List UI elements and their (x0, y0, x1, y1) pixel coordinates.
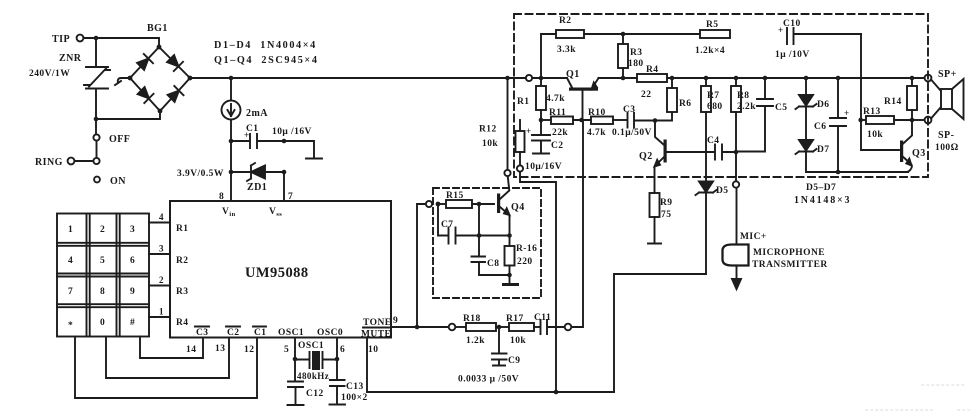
svg-text:0.0033 μ /50V: 0.0033 μ /50V (458, 375, 519, 385)
svg-text:R-16: R-16 (516, 244, 537, 254)
svg-text:R3: R3 (176, 287, 189, 297)
svg-text:R4: R4 (176, 318, 189, 328)
wire main top rail left (bridge to Q1) (190, 77, 567, 79)
svg-text:R5: R5 (706, 20, 719, 30)
svg-text:C1: C1 (254, 328, 267, 338)
resistor R14 (884, 78, 917, 120)
IC U1 UM95088 (170, 201, 391, 338)
wire keypad col 2 to pin 13 (106, 337, 229, 379)
svg-text:C12: C12 (306, 389, 324, 399)
node ZD1 left (229, 170, 234, 175)
svg-text:1: 1 (159, 307, 164, 317)
svg-text:3.9V/0.5W: 3.9V/0.5W (177, 169, 224, 179)
resistor R2 3.3k (541, 16, 700, 78)
svg-text:OFF: OFF (109, 134, 130, 145)
terminal tone line connector (449, 324, 456, 331)
svg-text:240V/1W: 240V/1W (29, 69, 70, 79)
svg-text:2.2k: 2.2k (737, 102, 756, 112)
svg-text:C7: C7 (441, 220, 454, 230)
svg-text:10μ /16V: 10μ /16V (272, 127, 312, 137)
svg-text:BG1: BG1 (147, 23, 168, 34)
svg-text:5: 5 (100, 256, 105, 266)
svg-text:22k: 22k (552, 128, 568, 138)
svg-text:C2: C2 (551, 141, 564, 151)
node rail R7 (704, 76, 709, 81)
wire pin 7 (284, 172, 293, 202)
varistor ZNR 240V/1W (29, 38, 110, 119)
terminal connector (R12 bottom) (517, 165, 523, 171)
node lower-left junction (94, 117, 99, 122)
resistor R18 1.2k (456, 314, 510, 346)
transistor Q3 (900, 120, 926, 172)
svg-text:1μ /10V: 1μ /10V (775, 50, 810, 60)
wire keypad col 1 to pin 12 (75, 337, 257, 399)
svg-text:9: 9 (130, 287, 135, 297)
svg-text:+: + (244, 130, 250, 140)
node rail R1/R2 (539, 76, 544, 81)
node C1 left (229, 139, 234, 144)
node pin9 riser junction (415, 325, 420, 330)
svg-text:TIP: TIP (52, 34, 70, 45)
svg-text:UM95088: UM95088 (245, 265, 309, 281)
resistor R10 4.7k (587, 108, 627, 138)
svg-text:D7: D7 (817, 145, 830, 155)
svg-text:1.2k: 1.2k (466, 336, 485, 346)
node rail C6 (836, 76, 841, 81)
svg-text:7: 7 (68, 287, 73, 297)
resistor R5 1.2k x4 (695, 20, 730, 56)
svg-text:1: 1 (68, 225, 73, 235)
terminal oscillator box input (426, 201, 432, 207)
keypad (57, 214, 149, 337)
svg-text:1.2k×4: 1.2k×4 (695, 46, 725, 56)
svg-text:3: 3 (130, 225, 135, 235)
node rail R8 (734, 76, 739, 81)
svg-text:2: 2 (100, 225, 105, 235)
resistor R3 180 (618, 34, 644, 78)
svg-text:10μ/16V: 10μ/16V (525, 162, 562, 172)
node R14 bottom / SP- (910, 118, 915, 123)
svg-text:R7: R7 (707, 91, 720, 101)
node C1 right / pin7 column (282, 139, 287, 144)
wire bridge bottom to lower rail (96, 111, 160, 119)
capacitor C8 (472, 257, 511, 276)
terminal rail connector (526, 75, 532, 81)
amplifier section dashed box (514, 14, 928, 177)
svg-text:MICROPHONE: MICROPHONE (753, 248, 825, 258)
svg-text:3: 3 (159, 244, 164, 254)
svg-text:2mA: 2mA (246, 108, 268, 119)
svg-text:+: + (526, 126, 532, 136)
svg-text:R2: R2 (559, 16, 572, 26)
terminal RING (35, 157, 93, 168)
diode D6 (796, 78, 830, 110)
transistor Q2 (639, 121, 714, 194)
svg-text:Q2: Q2 (639, 151, 653, 162)
node rail C5 (763, 76, 768, 81)
svg-text:*: * (68, 321, 73, 331)
wire keypad col 3 to pin 14 (140, 337, 203, 359)
svg-text:10k: 10k (510, 336, 526, 346)
wire riser to oscillator box input (417, 204, 426, 327)
svg-text:R9: R9 (660, 198, 673, 208)
svg-text:R2: R2 (176, 256, 189, 266)
svg-text:9: 9 (393, 316, 398, 326)
capacitor C11 (534, 313, 565, 334)
svg-text:Q1–Q4 2SC945×4: Q1–Q4 2SC945×4 (214, 55, 319, 66)
ground (oscillator) (504, 283, 518, 286)
capacitor C13 100x2 (330, 359, 368, 405)
node C3/R6/Q2 collector (653, 118, 658, 123)
svg-text:12: 12 (244, 345, 254, 355)
svg-text:100×2: 100×2 (341, 393, 368, 403)
capacitor C2 10u/16V (525, 120, 564, 172)
node C4/R8/mic (734, 150, 739, 155)
svg-text:10k: 10k (867, 130, 883, 140)
capacitor C9 0.0033u/50V (458, 327, 521, 385)
terminal SP+ (925, 69, 957, 81)
svg-text:680: 680 (707, 102, 723, 112)
svg-text:R12: R12 (479, 125, 497, 135)
svg-text:R15: R15 (446, 191, 464, 201)
wire return line from connector pair down to bottom rail (520, 172, 556, 392)
svg-text:75: 75 (661, 210, 671, 220)
diode D7 (796, 107, 909, 173)
node rail R14 (910, 76, 915, 81)
wire pin 10 MUTE to bottom rail (367, 338, 614, 393)
node rail D6 (804, 76, 809, 81)
svg-text:D1–D4 1N4004×4: D1–D4 1N4004×4 (214, 40, 317, 51)
svg-text:R14: R14 (884, 97, 902, 107)
svg-text:R10: R10 (588, 108, 606, 118)
svg-text:C2: C2 (227, 328, 240, 338)
svg-text:R8: R8 (737, 91, 750, 101)
wire main top rail right (Q1 to SP+) (599, 77, 925, 79)
svg-text:Q1: Q1 (566, 69, 580, 80)
svg-text:R18: R18 (463, 314, 481, 324)
svg-text:4: 4 (159, 212, 164, 222)
svg-text:TRANSMITTER: TRANSMITTER (752, 260, 828, 270)
resistor R9 75 (648, 193, 673, 244)
svg-text:C9: C9 (508, 356, 521, 366)
switch contact ON (94, 176, 126, 187)
capacitor C6 (814, 78, 850, 172)
capacitor C5 (736, 78, 788, 152)
wire pin 8 (219, 172, 231, 202)
diode D2 (bridge top-right arm) (167, 55, 183, 71)
svg-text:C5: C5 (775, 103, 788, 113)
wire keypad row 2 to pin 3 (149, 244, 170, 255)
resistor R6 (655, 78, 692, 121)
svg-text:Q4: Q4 (511, 202, 525, 213)
resistor R15 (438, 191, 494, 208)
wire R14 node to SP- terminal (912, 119, 925, 121)
resistor R7 680 (701, 78, 723, 181)
svg-text:ZNR: ZNR (59, 53, 82, 64)
node bottom rail / return junction (554, 390, 559, 395)
terminal C11 output connector (565, 324, 572, 331)
svg-text:OSC1: OSC1 (298, 341, 324, 351)
capacitor C12 (288, 359, 324, 405)
wire keypad row 4 to pin 1 (149, 307, 170, 318)
diode D3 (bridge bottom-left arm) (138, 87, 154, 103)
node rail R6 (670, 76, 675, 81)
svg-text:R6: R6 (679, 99, 692, 109)
wire pin 9 TONE output (391, 316, 449, 327)
resistor R8 2.2k (731, 78, 756, 152)
terminal SP- (925, 117, 959, 153)
wire TIP to bridge top (84, 38, 159, 47)
capacitor C4 (707, 136, 736, 160)
capacitor C3 0.1u/50V (612, 105, 655, 138)
node C7/base column (477, 233, 482, 238)
svg-text:SP+: SP+ (938, 69, 957, 80)
capacitor C1 10u/16V (231, 124, 312, 148)
resistor R17 10k (506, 314, 540, 346)
node Q4 base (477, 202, 482, 207)
svg-text:6: 6 (130, 256, 135, 266)
microphone MIC+ transmitter (723, 188, 828, 289)
svg-text:10: 10 (368, 345, 378, 355)
resistor R1 4.7k (517, 78, 565, 120)
node R16 bottom / C8 return (507, 273, 512, 278)
terminal connector (to Q4 collector) (504, 170, 510, 176)
svg-text:R11: R11 (549, 108, 566, 118)
svg-text:220: 220 (517, 257, 533, 267)
svg-text:R13: R13 (863, 107, 881, 117)
zener diode ZD1 3.9V/0.5W (177, 141, 284, 193)
pin name overbars / underline (195, 327, 389, 328)
node C6 bottom return (836, 170, 841, 175)
ground stub right of C1 (284, 141, 322, 159)
svg-text:5: 5 (284, 345, 289, 355)
bridge rectifier BG1 (128, 23, 193, 113)
node rail R3 (621, 76, 626, 81)
svg-text:8: 8 (100, 287, 105, 297)
node R1/R11/C2 (539, 118, 544, 123)
node current source tap (229, 76, 234, 81)
svg-text:10k: 10k (482, 139, 498, 149)
node R13/C10 column (858, 118, 863, 123)
resistor R11 22k (541, 108, 591, 138)
svg-text:C4: C4 (707, 136, 720, 146)
svg-text:MIC+: MIC+ (740, 232, 767, 242)
svg-text:R3: R3 (630, 48, 643, 58)
svg-text:R1: R1 (517, 97, 530, 107)
svg-text:C8: C8 (487, 259, 500, 269)
svg-text:R17: R17 (506, 314, 524, 324)
wire bridge left vertex stub (115, 78, 130, 85)
resistor R4 22 (637, 65, 667, 100)
svg-text:ON: ON (110, 176, 126, 187)
svg-text:+: + (844, 108, 850, 118)
svg-text:OSC1: OSC1 (278, 328, 304, 338)
transistor Q4 (497, 177, 525, 236)
resistor R13 10k (861, 107, 912, 140)
svg-text:3.3k: 3.3k (557, 45, 576, 55)
svg-text:C11: C11 (534, 313, 551, 323)
svg-text:C6: C6 (814, 122, 827, 132)
wire base column (478, 204, 480, 257)
svg-text:22: 22 (641, 90, 651, 100)
crystal OSC1 480kHz (284, 338, 345, 382)
svg-text:14: 14 (186, 345, 196, 355)
svg-text:C10: C10 (783, 19, 801, 29)
svg-text:480kHz: 480kHz (297, 371, 329, 381)
svg-text:1N4148×3: 1N4148×3 (794, 195, 851, 206)
svg-text:D5: D5 (716, 186, 729, 196)
transistor Q1 (566, 69, 599, 120)
node R15 left (436, 202, 441, 207)
switch OFF (93, 119, 130, 164)
svg-text:C3: C3 (196, 328, 209, 338)
svg-text:MUTE: MUTE (361, 330, 391, 340)
diode D4 (bridge bottom-right arm) (168, 86, 184, 102)
svg-text:100Ω: 100Ω (935, 143, 959, 153)
current source 2mA (222, 78, 269, 141)
svg-text:#: # (130, 318, 135, 328)
svg-text:0.1μ/50V: 0.1μ/50V (612, 128, 652, 138)
svg-text:4.7k: 4.7k (587, 128, 606, 138)
terminal TIP (52, 34, 83, 45)
svg-text:4: 4 (68, 256, 73, 266)
svg-text:180: 180 (628, 59, 644, 69)
resistor R16 220 (505, 236, 538, 284)
svg-text:Q3: Q3 (912, 148, 926, 159)
capacitor C7 (438, 204, 510, 244)
node R3 top (621, 32, 626, 37)
svg-text:TONE: TONE (363, 318, 392, 328)
node R11/R10/Q1 base (579, 118, 584, 123)
wire R12 column (507, 78, 509, 170)
wire keypad row 1 to pin 4 (149, 212, 170, 223)
wire C11 connector up to R10/R11 node (572, 121, 584, 327)
svg-text:2: 2 (159, 275, 164, 285)
svg-text:6: 6 (340, 345, 345, 355)
svg-text:D6: D6 (817, 100, 830, 110)
svg-text:4.7k: 4.7k (546, 94, 565, 104)
svg-text:13: 13 (215, 344, 225, 354)
wire keypad row 3 to pin 2 (149, 275, 170, 286)
scan artifact dots (decorative, faint) (866, 385, 972, 410)
wire C10 down to R13 node (861, 34, 899, 150)
svg-text:0: 0 (100, 318, 105, 328)
svg-text:C3: C3 (623, 105, 636, 115)
svg-text:OSC0: OSC0 (317, 328, 343, 338)
wire D5 return to bottom rail (614, 274, 706, 392)
terminal microphone connector (733, 152, 739, 188)
capacitor C10 1u/10V (775, 19, 861, 60)
svg-text:R1: R1 (176, 224, 189, 234)
svg-text:+: + (778, 25, 784, 35)
resistor R12 10k (479, 120, 525, 165)
node Q4 emitter / R16 top (507, 233, 512, 238)
node TIP/ZNR junction (94, 36, 99, 41)
node R18/R17/C9 (497, 325, 502, 330)
speaker SP 100ohm (931, 79, 964, 119)
svg-text:C13: C13 (346, 382, 364, 392)
diode D5 (696, 182, 729, 275)
svg-text:R4: R4 (646, 65, 659, 75)
node ZD1 right (282, 170, 287, 175)
svg-text:SP-: SP- (938, 130, 954, 141)
diode D1 (bridge top-left arm) (137, 54, 153, 70)
oscillator subcircuit dashed box (433, 188, 541, 298)
svg-text:D5–D7: D5–D7 (806, 183, 836, 193)
node rail / R12 column (505, 76, 510, 81)
svg-text:ZD1: ZD1 (247, 182, 267, 193)
svg-text:RING: RING (35, 157, 63, 168)
